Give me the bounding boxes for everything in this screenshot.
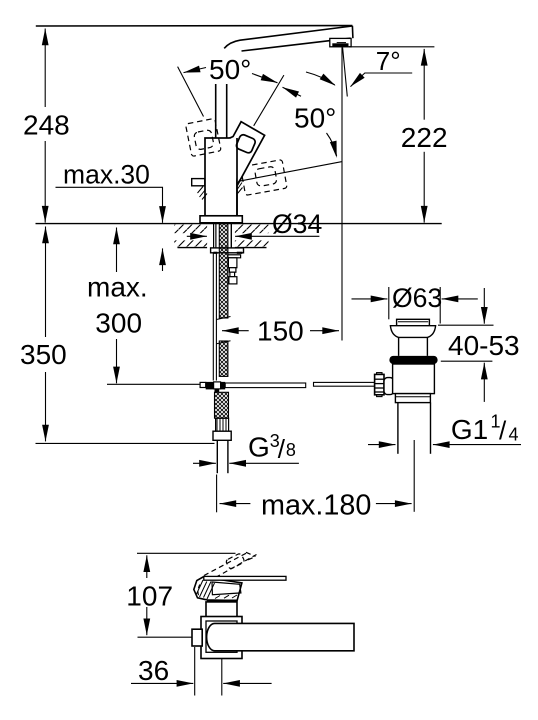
dimension max.30 (56, 187, 163, 271)
handle hole (235, 134, 256, 154)
counter top line (36, 223, 442, 225)
svg-text:150: 150 (257, 315, 304, 346)
plan left small square (192, 629, 202, 646)
O-ring (389, 356, 437, 364)
svg-text:36: 36 (138, 655, 169, 686)
plan lever thin bar (204, 576, 286, 580)
svg-text:max.: max. (87, 272, 148, 303)
svg-text:/: / (278, 434, 286, 464)
dimension G1 1/4 (368, 444, 521, 446)
svg-text:/: / (499, 416, 507, 446)
dashed handle position upper-left (185, 118, 221, 156)
water stream 7 deg line (343, 48, 348, 97)
dimension 107 (146, 555, 148, 635)
dimension dia63 (388, 287, 390, 319)
drain body (393, 364, 435, 394)
faucet body (205, 138, 237, 216)
braided hose segments (215, 224, 229, 419)
svg-text:4: 4 (509, 425, 519, 445)
counter hatching (174, 225, 207, 234)
solid handle (230, 122, 265, 186)
supply pipe G3/8 (216, 440, 218, 473)
svg-text:50°: 50° (209, 54, 251, 85)
svg-text:50°: 50° (294, 103, 336, 134)
relief band (395, 394, 430, 403)
left protrusion on body (192, 179, 205, 186)
dimension G3/8 (193, 462, 299, 464)
spout lower edge (242, 38, 351, 51)
plan body inner square (206, 621, 237, 652)
dimension 150 (222, 330, 339, 332)
handle axis line left (178, 67, 204, 117)
spout top reference line (36, 25, 353, 27)
aerator (330, 38, 351, 46)
dimension 350 (45, 227, 47, 442)
dimension 36 (194, 647, 196, 696)
dimension 248 (44, 29, 46, 223)
dashed spout projection (204, 552, 257, 577)
drain center line (413, 440, 415, 512)
spout upper contour (224, 26, 352, 48)
svg-text:248: 248 (23, 110, 70, 141)
shank below counter (213, 224, 215, 248)
svg-text:107: 107 (126, 580, 173, 611)
drain neck cylinder (398, 337, 400, 356)
dimension 222 (349, 46, 434, 48)
350 bottom reference line (36, 442, 215, 444)
plan body neck (206, 602, 237, 621)
drain pop-up plug (397, 319, 430, 325)
hatch ticks left hub (198, 187, 208, 200)
plan spout bar (207, 623, 354, 650)
spout tip edge (351, 26, 354, 38)
hatch ticks right hub (238, 178, 243, 194)
svg-text:222: 222 (401, 122, 448, 153)
mounting flange washer (211, 248, 244, 253)
drain knob knurled (375, 374, 384, 394)
svg-text:7°: 7° (376, 46, 401, 76)
svg-text:300: 300 (95, 308, 142, 339)
plan body outer square (201, 617, 242, 659)
rod bars (225, 383, 306, 388)
hose break ticks (217, 317, 231, 320)
handle axis line up (line A) (254, 75, 284, 126)
svg-text:8: 8 (286, 440, 296, 460)
water stream vertical line (341, 48, 343, 341)
svg-text:350: 350 (20, 339, 67, 370)
counter bottom lines (178, 247, 208, 249)
supply pull rod pair (212, 253, 214, 381)
svg-text:Ø34: Ø34 (272, 209, 322, 239)
plan head assembly (194, 577, 242, 601)
mounting stud stack (228, 255, 241, 284)
svg-text:G: G (248, 432, 270, 463)
107 bottom tick (138, 636, 192, 638)
dimension max.300 (116, 228, 118, 384)
body right edge over handle (236, 138, 238, 216)
tailpipe (397, 403, 399, 454)
svg-text:40-53: 40-53 (448, 330, 520, 361)
svg-text:Ø63: Ø63 (392, 283, 442, 313)
handle axis line down-right (237, 162, 342, 182)
dashed handle position lower-right (240, 160, 287, 196)
base plate (200, 216, 242, 223)
107 top tick (137, 552, 236, 554)
svg-text:G1: G1 (451, 414, 488, 445)
drain flange (390, 326, 435, 338)
pop-up rod horizontal (107, 383, 200, 385)
svg-text:max.180: max.180 (261, 490, 371, 522)
dimension dia34 (187, 235, 320, 237)
svg-text:max.30: max.30 (63, 160, 150, 190)
rod clamp at hose (200, 382, 206, 387)
dimension max.180 (216, 475, 218, 513)
hose end fitting (216, 418, 229, 431)
dimension 40-53 (438, 324, 494, 326)
spout riser lines (215, 84, 217, 138)
